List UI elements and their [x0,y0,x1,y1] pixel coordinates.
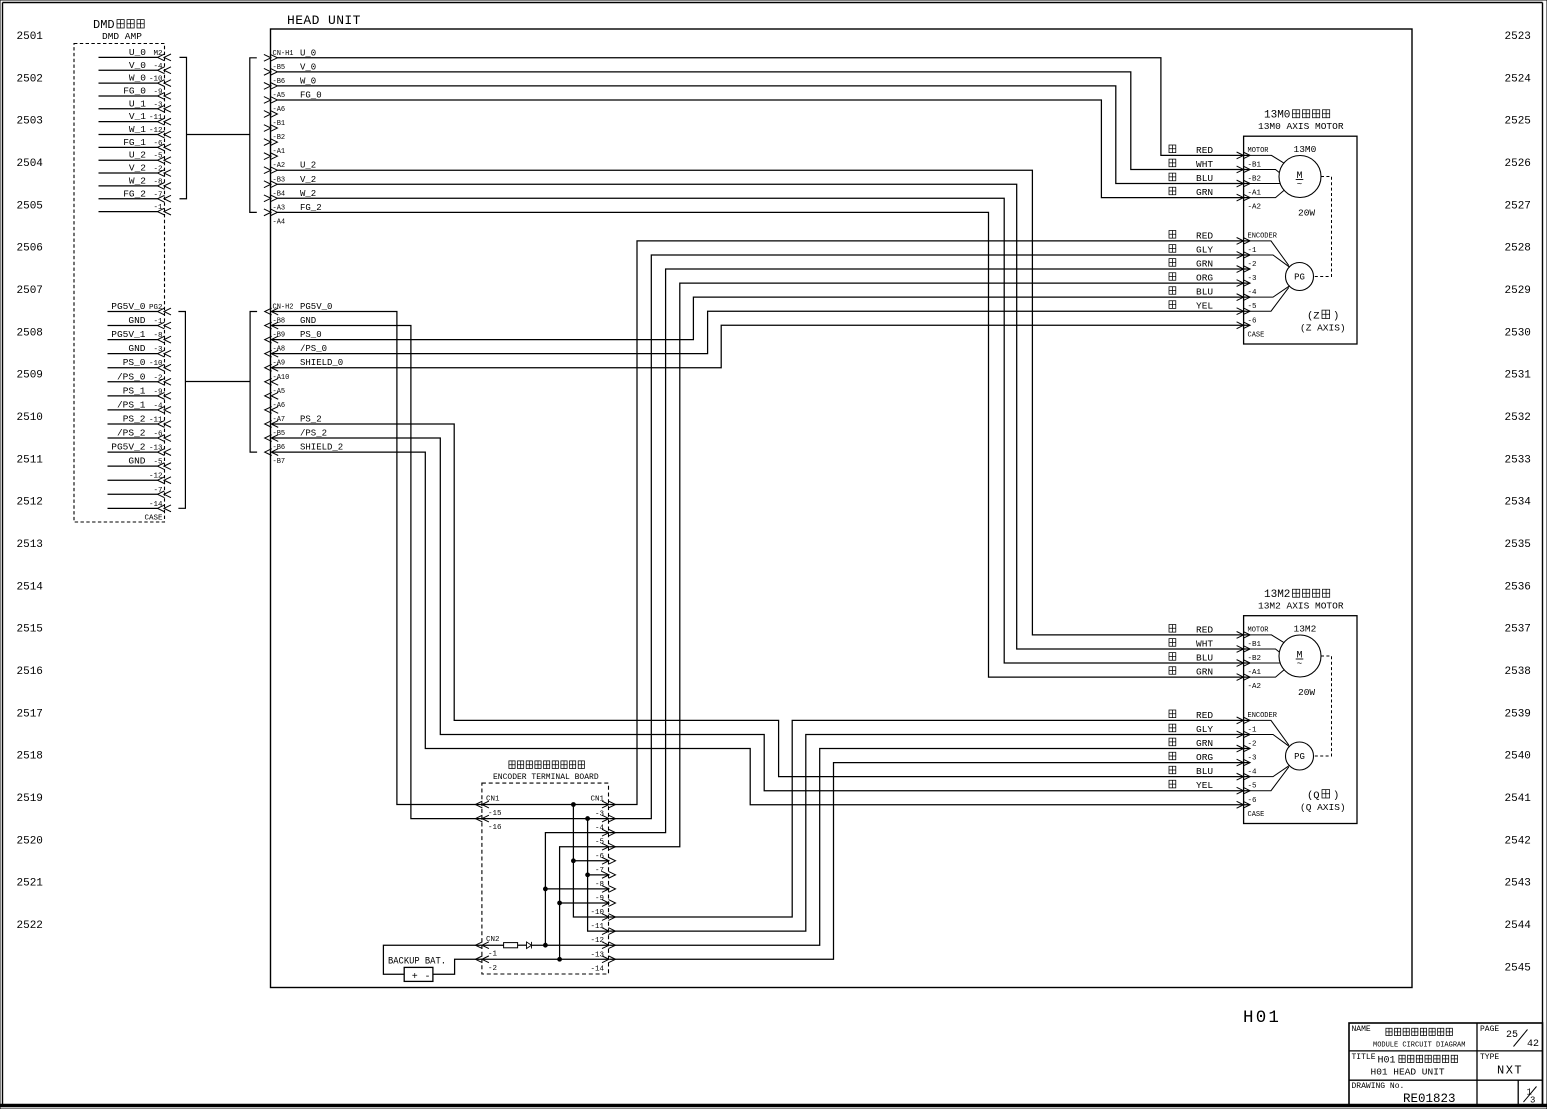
svg-text:U_0: U_0 [129,47,146,58]
resistor R on backup battery feed [504,943,518,948]
svg-text:2507: 2507 [17,285,43,297]
svg-text:WHT: WHT [1196,638,1213,649]
svg-text:PG5V_2: PG5V_2 [111,442,146,453]
svg-text:2517: 2517 [17,708,43,720]
DMD AMP connector M2 pin -2 signal V_2 [99,163,172,177]
terminal board internal bus VA BAT+ pins 4-8-12 [545,833,609,946]
svg-text:2532: 2532 [1505,412,1531,424]
motor connector MOTOR of 13M0 [1237,147,1270,212]
svg-text:/PS_1: /PS_1 [117,399,146,410]
svg-text:PG5V_0: PG5V_0 [111,301,146,312]
svg-text:-10: -10 [590,909,604,917]
svg-text:NXT: NXT [1497,1064,1523,1078]
svg-text:2533: 2533 [1505,454,1531,466]
DMD AMP connector PG2 pin PG2 signal PG5V_0 [108,301,172,315]
wire GND CN-H2 to terminal board CN1 pin15 [272,326,482,819]
DMD AMP connector PG2 pin -11 signal PS_2 [108,413,172,427]
DMD AMP connector M2 pin -11 signal V_1 [99,111,172,125]
svg-text:2509: 2509 [17,370,43,382]
svg-text:2504: 2504 [17,158,44,170]
svg-text:2527: 2527 [1505,200,1531,212]
terminal board internal wire pin1 row PG5V bus feed [482,804,609,806]
connector CN-H1 pin -B4 signal W_2 [264,189,316,202]
svg-text:2520: 2520 [17,835,43,847]
svg-text:PS_2: PS_2 [300,414,322,424]
connector CN-H2 pin -B7 [273,458,286,466]
svg-text:-5: -5 [1248,303,1258,311]
cable bundle bracket CN-H2 side [250,312,257,453]
svg-text:2542: 2542 [1505,835,1531,847]
terminal board internal wire CN2 pin-1 to pin13 row [482,958,609,960]
svg-text:TITLE: TITLE [1352,1053,1376,1062]
svg-text:-8: -8 [595,881,604,889]
svg-text:2514: 2514 [17,581,44,593]
wire terminal board CN1 pin4 to 13M0 encoder GRN [610,269,1251,833]
wire /PS_2 CN-H2 to 13M2 encoder YEL [272,438,1250,791]
svg-text:RED: RED [1196,230,1213,241]
svg-text:MODULE CIRCUIT DIAGRAM: MODULE CIRCUIT DIAGRAM [1373,1042,1465,1050]
svg-text:(Z: (Z [1307,311,1320,323]
svg-text:TYPE: TYPE [1480,1053,1499,1062]
svg-text:MOTOR: MOTOR [1248,147,1270,155]
fan-in wires ENCODER pins to PG circle of 13M2 [1250,720,1290,790]
DMD AMP connector M2 pin -3 signal U_1 [99,98,172,112]
svg-text:2535: 2535 [1505,539,1531,551]
svg-text:-A2: -A2 [1248,204,1262,212]
svg-text:DMD: DMD [93,18,115,32]
svg-text:-5: -5 [595,839,605,847]
diode D on backup battery feed [527,942,532,949]
wire PS_2 CN-H2 to 13M2 encoder BLU [272,424,1250,777]
cable bundle bracket DMD AMP encoder-signal group [178,312,185,509]
svg-text:W_1: W_1 [129,124,146,135]
connector CN-H2 pin -A5 [265,388,285,399]
connector CN-H1 pin -B3 signal V_2 [264,175,316,188]
terminal board internal stub pin6 [573,860,609,862]
svg-text:YEL: YEL [1196,301,1213,312]
connector CN-H1 pin -B1 [264,120,285,131]
svg-text:/PS_2: /PS_2 [300,429,327,439]
svg-text:-3: -3 [1248,755,1258,763]
svg-text:2515: 2515 [17,624,43,636]
terminal board connector CN1 right pins [590,796,615,974]
svg-text:-11: -11 [590,923,604,931]
svg-text:-4: -4 [1248,289,1258,297]
svg-text:H01: H01 [1378,1056,1396,1067]
svg-text:2506: 2506 [17,243,43,255]
svg-text:FG_2: FG_2 [300,203,322,213]
encoder connector ENCODER of 13M0 [1237,232,1278,339]
svg-text:W_2: W_2 [129,175,146,186]
wire battery minus to CN2 pin-1 [433,959,482,974]
svg-text:/PS_2: /PS_2 [117,428,146,439]
svg-text:2510: 2510 [17,412,43,424]
svg-text:BLU: BLU [1196,653,1213,664]
fan-in wires MOTOR pins to M circle of 13M2 [1250,635,1284,677]
svg-text:-12: -12 [149,473,163,481]
svg-text:-3: -3 [1248,275,1258,283]
svg-text:-A10: -A10 [273,374,290,382]
svg-text:): ) [1333,790,1339,802]
svg-text:-B7: -B7 [273,458,286,466]
bundled cable wire DMD AMP to CN-H1 [187,134,250,136]
connector CN-H1 pin -A3 signal FG_2 [264,203,322,216]
svg-text:-1: -1 [488,951,498,959]
connector CN-H2 pin -B9 signal PS_0 [265,330,322,343]
svg-text:PG: PG [1294,752,1305,762]
svg-text:SHIELD_0: SHIELD_0 [300,358,343,368]
svg-text:PG5V_1: PG5V_1 [111,329,146,340]
svg-text:RE01823: RE01823 [1403,1092,1456,1106]
DMD AMP connector PG2 pin -6 signal /PS_2 [108,428,172,442]
wire terminal board CN1 pin11 to 13M2 encoder GLY [610,734,1251,931]
fan-in wires ENCODER pins to PG circle of 13M0 [1250,241,1290,311]
wire terminal board CN1 pin3 to 13M0 encoder GLY [610,255,1251,819]
svg-text:NAME: NAME [1352,1025,1371,1034]
terminal board internal bus VC PG5V pins 1-6-10 [573,805,609,918]
svg-text:U_2: U_2 [300,161,316,171]
connector CN-H1 pin -A4 [273,218,286,226]
svg-text:-15: -15 [488,810,502,818]
terminal board internal wire CN2 pin1 to pin12 row [482,944,609,946]
svg-text:-12: -12 [590,937,604,945]
svg-text:-6: -6 [1248,317,1258,325]
DMD AMP connector PG2 pin -4 signal /PS_1 [108,399,172,413]
cable bundle bracket DMD AMP motor-signal group [180,57,187,198]
svg-text:U_0: U_0 [300,48,316,58]
svg-text:2544: 2544 [1505,920,1532,932]
terminal board internal wire pin15/pin3 row GND bus feed [482,818,609,820]
svg-text:/PS_0: /PS_0 [117,371,146,382]
grid row numbers left column 2501-2522 [17,31,44,932]
encoder terminal board title [493,761,599,782]
svg-text:GRN: GRN [1196,738,1213,749]
HEAD UNIT box [271,29,1413,988]
wire PG5V_0 CN-H2 to terminal board CN1 pin1 [272,312,482,805]
encoder PG circle 13M0 [1286,263,1314,291]
terminal board internal stub pin8 [545,888,609,890]
terminal board connector CN1 left pins [475,796,502,833]
svg-text:-B1: -B1 [1248,161,1262,169]
svg-text:(Q AXIS): (Q AXIS) [1300,802,1346,813]
motor connector MOTOR of 13M2 [1237,626,1270,691]
motor unit 13M0 title [1258,110,1344,133]
svg-text:/PS_0: /PS_0 [300,344,327,354]
connector CN-H2 pin -A8 signal /PS_0 [265,344,327,357]
svg-text:U_2: U_2 [129,150,146,161]
cable bundle bracket CN-H1 side [250,58,257,213]
wire terminal board CN1 pin10 to 13M2 encoder RED [610,720,1251,917]
connector CN-H1 pin -A6 [264,106,285,117]
DMD AMP connector PG2 pin -5 signal GND [108,456,172,470]
svg-text:PS_2: PS_2 [123,413,146,424]
svg-text:-13: -13 [590,951,604,959]
svg-text:2522: 2522 [17,920,43,932]
svg-text:-B1: -B1 [1248,641,1262,649]
svg-text:13M0 AXIS MOTOR: 13M0 AXIS MOTOR [1258,121,1344,132]
svg-text:2518: 2518 [17,751,43,763]
DMD AMP connector M2 pin -5 signal U_2 [99,150,172,164]
svg-text:-11: -11 [149,114,163,122]
motor M circle 13M0 [1279,144,1321,219]
svg-text:2519: 2519 [17,793,43,805]
svg-text:GRN: GRN [1196,187,1213,198]
DMD AMP connector PG2 pin -10 signal PS_0 [108,357,172,371]
svg-text:CASE: CASE [1248,811,1265,819]
svg-text:2526: 2526 [1505,158,1531,170]
svg-text:2503: 2503 [17,116,43,128]
title block sheet fraction 1/3 [1524,1087,1537,1106]
svg-text:-3: -3 [595,811,605,819]
svg-text:25: 25 [1506,1030,1518,1041]
svg-text:PAGE: PAGE [1480,1025,1499,1034]
svg-text:V_2: V_2 [129,163,146,174]
svg-text:RED: RED [1196,145,1213,156]
svg-text:ENCODER TERMINAL BOARD: ENCODER TERMINAL BOARD [493,773,599,782]
svg-text:-A1: -A1 [1248,669,1262,677]
title block DRAWING No cell RE01823 [1352,1082,1456,1106]
wire V_0 CN-H1 to 13M0 motor WHT [277,72,1250,170]
connector CN-H1 pin -A2 signal U_2 [264,161,316,174]
DMD AMP connector PG2 pin -1 signal GND [108,315,172,329]
svg-text:2529: 2529 [1505,285,1531,297]
connector CN-H1 pin -B5 signal V_0 [264,62,316,75]
title block TITLE cell [1352,1053,1458,1078]
axis name (Z AXIS) [1300,310,1346,333]
DMD AMP connector PG2 pin -3 signal GND [108,343,172,357]
svg-text:PS_0: PS_0 [123,357,146,368]
svg-text:H01: H01 [1243,1008,1281,1028]
svg-text:ENCODER: ENCODER [1248,712,1278,720]
svg-text:-14: -14 [149,501,163,509]
fan-in wires MOTOR pins to M circle of 13M0 [1250,155,1284,197]
svg-text:+: + [412,972,418,983]
svg-text:U_1: U_1 [129,98,146,109]
svg-text:-A4: -A4 [273,218,286,226]
svg-text:SHIELD_2: SHIELD_2 [300,443,343,453]
wire battery plus to CN2 pin1 [383,945,482,974]
svg-text:BLU: BLU [1196,173,1213,184]
svg-text:PG5V_0: PG5V_0 [300,302,332,312]
svg-text:-1: -1 [1248,247,1258,255]
terminal board internal stub pin7 [588,874,609,876]
svg-text:-9: -9 [595,895,604,903]
svg-text:13M2 AXIS MOTOR: 13M2 AXIS MOTOR [1258,601,1344,612]
svg-text:-13: -13 [149,445,163,453]
DMD AMP connector M2 pin -10 signal W_0 [99,73,172,87]
DMD AMP connector M2 pin M2 signal U_0 [99,47,172,61]
wire SHIELD_0 CN-H2 to 13M0 encoder pin6 [272,325,1250,367]
svg-text:2528: 2528 [1505,243,1531,255]
svg-text:PG2: PG2 [149,304,163,312]
title block PAGE cell 25/42 [1480,1025,1539,1050]
svg-text:BLU: BLU [1196,766,1213,777]
svg-text:-A1: -A1 [1248,190,1262,198]
svg-text:GRN: GRN [1196,667,1213,678]
svg-text:-2: -2 [1248,741,1257,749]
wire PS_0 CN-H2 to 13M0 encoder BLU [272,297,1250,339]
motor unit 13M2 title [1258,589,1344,612]
connector CN-H2 pin -B6 signal SHIELD_2 [265,443,344,456]
svg-text:ENCODER: ENCODER [1248,232,1278,240]
svg-text:FG_1: FG_1 [123,137,146,148]
encoder PG circle 13M2 [1286,742,1314,770]
connector CN-H2 pin -A9 signal SHIELD_0 [265,358,344,371]
DMD AMP connector PG2 pin -8 signal PG5V_1 [108,329,172,343]
motor M circle 13M2 [1279,623,1321,698]
DMD AMP connector PG2 pin -13 signal PG5V_2 [108,442,172,456]
svg-text:DRAWING No.: DRAWING No. [1352,1082,1405,1091]
svg-text:2538: 2538 [1505,666,1531,678]
svg-text:13M2: 13M2 [1294,623,1317,634]
motor unit 13M0 box [1244,136,1357,344]
wire W_2 CN-H1 to 13M2 motor BLU [277,198,1250,663]
wire FG_0 CN-H1 to 13M0 motor GRN [277,100,1250,198]
svg-text:2502: 2502 [17,73,43,85]
svg-text:): ) [1333,311,1339,323]
svg-text:-2: -2 [488,965,497,973]
svg-text:V_1: V_1 [129,111,146,122]
connector CN-H2 pin -A10 [265,374,290,385]
svg-text:FG_0: FG_0 [123,85,146,96]
terminal board internal bus VD GND pins 3-7-11 [588,819,609,932]
connector CN-H2 pin -A6 [265,402,285,413]
svg-text:-6: -6 [595,853,605,861]
svg-text:2508: 2508 [17,327,43,339]
svg-text:-14: -14 [590,965,604,973]
svg-text:2516: 2516 [17,666,43,678]
svg-text:2525: 2525 [1505,116,1531,128]
wire FG_2 CN-H1 to 13M2 motor GRN [277,212,1250,677]
svg-text:GRN: GRN [1196,259,1213,270]
wire /PS_0 CN-H2 to 13M0 encoder YEL [272,311,1250,353]
svg-text:CN1: CN1 [486,796,500,804]
encoder terminal board dashed box [482,783,609,974]
svg-text:BACKUP BAT.: BACKUP BAT. [388,957,446,968]
svg-text:PG: PG [1294,273,1305,283]
wire U_0 CN-H1 to 13M0 motor RED [277,58,1250,156]
svg-text:-10: -10 [149,360,163,368]
connector CN-H1 pin -A5 signal FG_0 [264,90,322,103]
svg-text:-7: -7 [595,867,604,875]
DMD AMP connector M2 pin -12 signal W_1 [99,124,172,138]
svg-text:HEAD UNIT: HEAD UNIT [287,13,361,28]
bundled cable wire DMD AMP to CN-H2 [185,381,250,383]
svg-text:13M2: 13M2 [1264,589,1290,601]
terminal board internal bus VB BAT- pins 5-9-13 [560,847,609,960]
svg-text:W_0: W_0 [300,76,316,86]
DMD AMP connector M2 pin -4 signal V_0 [99,60,172,74]
terminal board connector CN2 pins [475,936,499,973]
terminal board internal stub pin9 [560,902,609,904]
dashed shaft link M to PG of 13M2 [1314,656,1332,756]
svg-text:-10: -10 [149,76,163,84]
svg-text:2539: 2539 [1505,708,1531,720]
svg-text:13M0: 13M0 [1264,110,1290,122]
DMD AMP connector PG2 pin -12 [108,473,172,484]
svg-text:CN2: CN2 [486,936,500,944]
svg-text:-12: -12 [149,127,163,135]
color labels for 13M2 motor wires [1169,624,1213,677]
svg-text:FG_0: FG_0 [300,90,322,100]
color labels for 13M0 encoder wires [1169,230,1213,311]
svg-text:GND: GND [128,315,145,326]
title block NAME cell [1352,1025,1466,1050]
svg-text:ORG: ORG [1196,273,1213,284]
svg-text:V_2: V_2 [300,175,316,185]
DMD AMP connector PG2 pin -2 signal /PS_0 [108,371,172,385]
svg-text:2501: 2501 [17,31,44,43]
DMD amplifier dashed box [74,44,165,523]
svg-text:~: ~ [1297,659,1302,669]
svg-text:DMD AMP: DMD AMP [102,31,142,42]
svg-text:2540: 2540 [1505,751,1531,763]
svg-text:-A2: -A2 [1248,683,1262,691]
svg-text:2521: 2521 [17,878,44,890]
svg-text:GLY: GLY [1196,724,1213,735]
connector CN-H1 pin -A1 [264,148,285,159]
svg-text:2511: 2511 [17,454,44,466]
svg-text:GLY: GLY [1196,244,1213,255]
DMD AMP connector PG2 pin -9 signal PS_1 [108,385,172,399]
DMD AMP connector PG2 pin -7 [108,487,172,498]
connector CN-H2 pin -B8 signal GND [265,316,317,329]
title block TYPE cell NXT [1480,1053,1523,1078]
grid row numbers right column 2523-2545 [1505,31,1532,974]
svg-text:PS_1: PS_1 [123,385,146,396]
DMD amplifier box title [93,18,144,42]
svg-text:H01 HEAD UNIT: H01 HEAD UNIT [1371,1067,1445,1078]
svg-text:CN-H2: CN-H2 [273,304,294,312]
svg-text:13M0: 13M0 [1294,144,1317,155]
svg-text:CASE: CASE [1248,331,1265,339]
svg-text:RED: RED [1196,624,1213,635]
svg-text:V_0: V_0 [129,60,146,71]
connector CN-H1 pin -B2 [264,134,285,145]
svg-text:2513: 2513 [17,539,43,551]
wire terminal board CN1 pin5 to 13M0 encoder ORG [610,283,1251,847]
svg-text:-2: -2 [1248,261,1257,269]
svg-text:FG_2: FG_2 [123,188,146,199]
svg-text:2536: 2536 [1505,581,1531,593]
svg-text:CN1: CN1 [590,796,604,804]
svg-text:3: 3 [1530,1096,1535,1106]
svg-text:2523: 2523 [1505,31,1531,43]
svg-text:~: ~ [1297,179,1302,189]
svg-text:W_0: W_0 [129,73,146,84]
wire terminal board CN1 pin12 to 13M2 encoder GRN [610,749,1251,946]
encoder connector ENCODER of 13M2 [1237,712,1278,819]
svg-text:-6: -6 [1248,797,1258,805]
svg-text:V_0: V_0 [300,62,316,72]
wire terminal board CN1 pin13 to 13M2 encoder ORG [610,763,1251,960]
DMD AMP connector M2 pin -7 signal FG_2 [99,188,172,202]
svg-text:GND: GND [128,343,145,354]
DMD AMP connector M2 pin -8 signal W_2 [99,175,172,189]
svg-text:GND: GND [300,316,316,326]
DMD AMP connector M2 pin -1 [99,204,172,215]
svg-text:20W: 20W [1298,208,1315,219]
svg-text:GND: GND [128,456,145,467]
connector CN-H1 pin -B6 signal W_0 [264,76,316,89]
axis name (Q AXIS) [1300,790,1346,813]
svg-text:MOTOR: MOTOR [1248,626,1270,634]
DMD AMP connector M2 pin -9 signal FG_0 [99,85,172,99]
dashed shaft link M to PG of 13M0 [1314,177,1332,277]
svg-text:-5: -5 [1248,783,1258,791]
svg-text:YEL: YEL [1196,780,1213,791]
wire V_2 CN-H1 to 13M2 motor WHT [277,184,1250,649]
